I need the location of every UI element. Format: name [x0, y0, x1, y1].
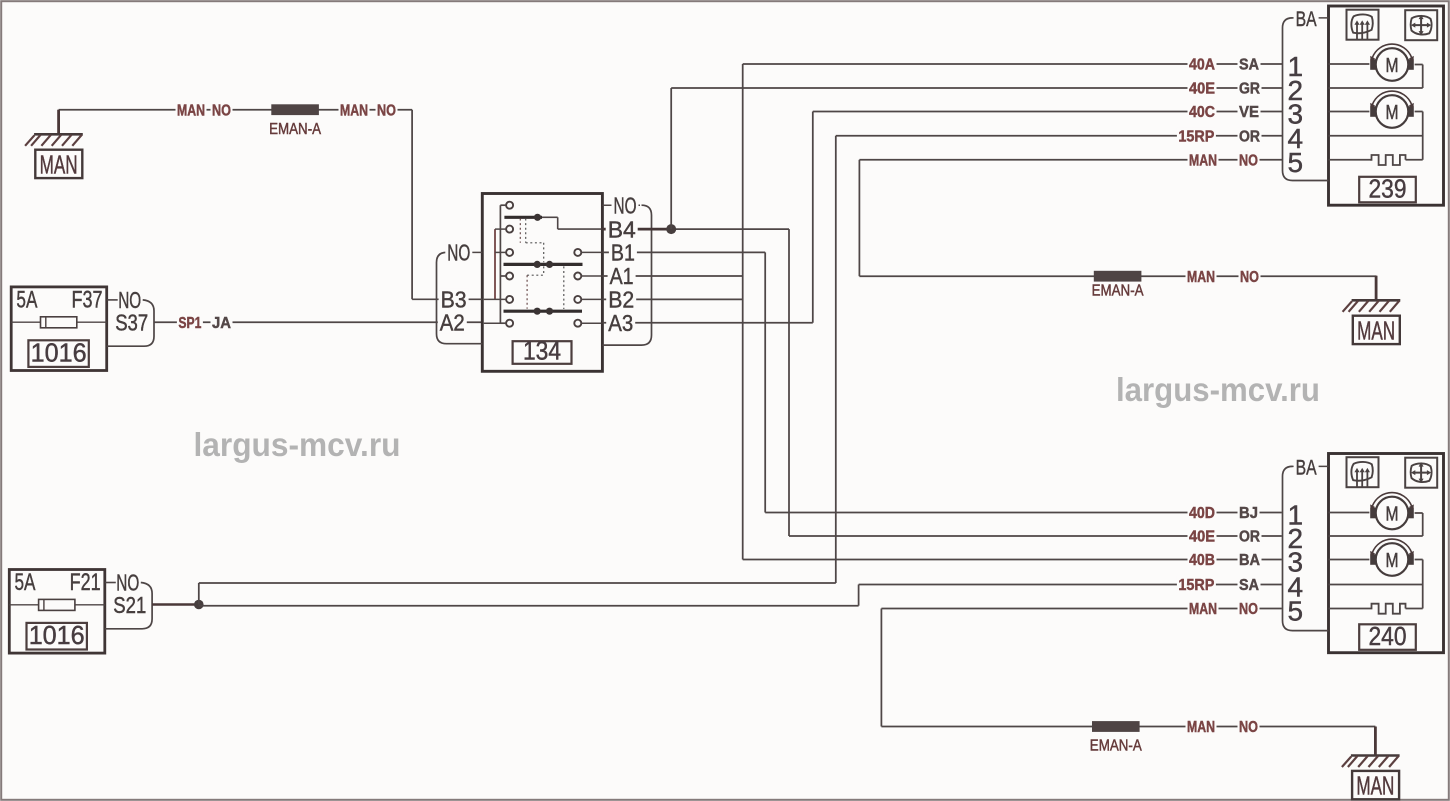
net label MAN (top-left) [176, 101, 207, 119]
relay contact bar 1 (to B4) [504, 214, 601, 229]
fuse F21 (F21 block) [9, 569, 105, 653]
pin number 2 (unit 239) [1288, 75, 1304, 106]
wire 239 pin1 / A1 / B2 / 240 pin3 vertical [743, 64, 1283, 560]
net label MAN (E2) [1186, 268, 1217, 286]
unit 240 id box [1359, 621, 1416, 651]
relay contact bar 3 [504, 308, 583, 315]
net labels 40A-SA [1188, 56, 1261, 74]
svg-text:BA: BA [1296, 457, 1317, 480]
svg-text:40E: 40E [1189, 529, 1215, 546]
heated-glass icon (unit 240) [1347, 457, 1379, 487]
pin number 3 (unit 239) [1288, 99, 1304, 130]
svg-text:239: 239 [1369, 173, 1407, 203]
net labels 15RP-OR [1177, 127, 1262, 145]
svg-text:MAN: MAN [1357, 315, 1395, 345]
svg-text:largus-mcv.ru: largus-mcv.ru [1116, 371, 1320, 408]
wires unit 240 pin1 to motor1 [1329, 512, 1370, 514]
wire 240 pin5 MAN to bottom EMAN-A and ground [881, 609, 1375, 732]
splice EMAN-A (E3 bottom) [1090, 721, 1143, 755]
svg-text:M: M [1386, 55, 1399, 77]
splice EMAN-A (E1 top-left) [269, 104, 322, 138]
net labels 40E-OR (240) [1188, 528, 1262, 546]
heated-glass icon (unit 239) [1347, 10, 1379, 40]
pin BA and bracket (unit 240) [1283, 455, 1329, 630]
svg-text:OR: OR [1239, 529, 1260, 546]
svg-text:A3: A3 [608, 310, 633, 336]
svg-text:NO: NO [447, 240, 470, 266]
svg-text:MAN: MAN [1189, 601, 1217, 618]
net labels 40C-VE [1188, 103, 1261, 121]
wire branch to 240 pin4 (15RP) [199, 585, 1282, 606]
pin number 5 (unit 240) [1288, 596, 1304, 627]
svg-text:JA: JA [212, 315, 231, 332]
net label NO (E2) [1239, 268, 1261, 286]
relay linkage dashes bar2-bar3 [527, 266, 564, 309]
svg-text:SP1: SP1 [178, 315, 201, 332]
svg-text:NO: NO [1239, 601, 1258, 618]
net label MAN (E3) [1186, 718, 1217, 736]
net label SP1 [177, 314, 203, 332]
relay pin A1 wire [602, 263, 742, 289]
svg-text:BA: BA [1296, 8, 1317, 31]
svg-text:MAN: MAN [177, 102, 205, 119]
relay 134 id box [513, 336, 572, 366]
fuse F37 (F37 block) [11, 286, 107, 370]
unit 239 box [1329, 6, 1444, 205]
net label NO (top-left) [211, 101, 233, 119]
svg-text:MAN: MAN [1187, 269, 1215, 286]
wires unit 239 pin1 to motor1 [1329, 63, 1370, 65]
ground MAN G2 [1343, 276, 1401, 346]
svg-text:40A: 40A [1189, 57, 1215, 74]
svg-text:A1: A1 [610, 263, 634, 289]
relay contact bar 2 [504, 261, 583, 268]
svg-text:5A: 5A [16, 286, 37, 313]
svg-text:NO: NO [377, 102, 396, 119]
net labels 40B-BA [1188, 551, 1262, 569]
svg-text:B1: B1 [611, 240, 635, 266]
net labels 40D-BJ [1188, 504, 1260, 522]
relay interior: A2 pin wire [484, 322, 506, 324]
svg-text:SA: SA [1239, 577, 1259, 594]
svg-text:40B: 40B [1189, 552, 1215, 569]
svg-text:S21: S21 [113, 592, 146, 618]
pin number 4 (unit 240) [1288, 572, 1304, 603]
connector label 1016 (F21 block) [27, 620, 87, 650]
pin number 2 (unit 240) [1288, 523, 1304, 554]
svg-text:SA: SA [1239, 57, 1259, 74]
heater/pulse resistor symbol (unit 240) [1370, 604, 1406, 614]
svg-text:NO: NO [212, 102, 231, 119]
net labels 15RP-SA (240) [1177, 576, 1261, 594]
svg-text:1016: 1016 [29, 620, 85, 650]
svg-text:MAN: MAN [1189, 152, 1217, 169]
svg-text:M: M [1386, 550, 1399, 572]
svg-text:15RP: 15RP [1178, 577, 1214, 594]
relay pin B2 wire [602, 287, 742, 313]
svg-text:A2: A2 [440, 309, 465, 335]
svg-text:1016: 1016 [31, 337, 87, 367]
svg-text:M: M [1386, 102, 1399, 124]
svg-text:NO: NO [614, 192, 637, 218]
splice EMAN-A (E2 middle-right) [1092, 271, 1145, 300]
relay interior: left bus (coil common) [500, 205, 506, 323]
svg-text:NO: NO [1239, 152, 1258, 169]
svg-text:134: 134 [523, 336, 561, 366]
relay pin A2 [438, 309, 467, 335]
svg-text:MAN: MAN [340, 102, 368, 119]
svg-text:B2: B2 [608, 287, 634, 313]
watermark left [194, 426, 401, 463]
net label MAN (after E1) [339, 101, 370, 119]
wire S21 output (thick) [152, 603, 199, 606]
svg-text:largus-mcv.ru: largus-mcv.ru [194, 426, 401, 463]
svg-text:BA: BA [1239, 552, 1260, 569]
wire: ground to EMAN-A to corner (top-left) [59, 110, 413, 300]
pin number 4 (unit 239) [1288, 123, 1304, 154]
svg-text:NO: NO [1239, 719, 1258, 736]
relay linkage dashes bar1-bar2 [520, 219, 543, 263]
unit 239 id box [1359, 173, 1416, 203]
watermark right [1116, 371, 1320, 408]
relay interior: fixed contacts left column [506, 202, 513, 327]
svg-text:EMAN-A: EMAN-A [1092, 283, 1145, 300]
net labels 40E-GR [1188, 80, 1262, 98]
net labels MAN-NO (240 pin5) [1188, 600, 1260, 618]
wires unit 239 motor1 to pin2 [1329, 65, 1423, 89]
net label NO (after E1) [376, 101, 398, 119]
svg-text:5: 5 [1288, 147, 1304, 178]
svg-text:M: M [1386, 503, 1399, 525]
svg-text:BJ: BJ [1239, 505, 1258, 522]
relay right bracket [602, 205, 651, 345]
relay pin B4 wire to junction and down to 240 pin2 [602, 216, 1281, 536]
motor M (unit 240 M1) [1370, 493, 1414, 530]
relay pin B1 wire to 240 pin1 [602, 240, 1281, 513]
net label JA [211, 314, 233, 332]
pin number 1 (unit 239) [1288, 51, 1304, 82]
pin number 3 (unit 240) [1288, 547, 1304, 578]
pin number 5 (unit 239) [1288, 147, 1304, 178]
svg-text:5A: 5A [15, 569, 36, 596]
relay pin NO (right) [602, 192, 640, 218]
wire branch to 239 pin4 (15RP) [199, 136, 1283, 605]
svg-text:S37: S37 [115, 309, 148, 335]
svg-text:40E: 40E [1189, 81, 1215, 98]
svg-text:MAN: MAN [1356, 771, 1394, 801]
svg-text:NO: NO [1240, 269, 1259, 286]
svg-text:B4: B4 [608, 216, 636, 242]
junction node B4 [666, 224, 676, 234]
svg-text:OR: OR [1239, 128, 1260, 145]
heater/pulse resistor symbol (unit 239) [1370, 155, 1406, 165]
net label NO (E3) [1238, 718, 1260, 736]
svg-text:MAN: MAN [40, 149, 78, 179]
motor M (unit 239 M1) [1370, 44, 1414, 81]
relay interior: B3 pin wire [484, 298, 506, 300]
wires unit 239 pin3 to motor2 [1329, 111, 1370, 113]
wires unit 240 motor2/pin4/wave vertical [1329, 560, 1423, 609]
relay pin NO (left) [445, 240, 482, 266]
svg-text:F37: F37 [72, 286, 103, 313]
net labels MAN-NO (239 pin5) [1188, 151, 1260, 169]
wires unit 239 motor2/pin4/wave vertical [1329, 112, 1423, 160]
air-flow icon (unit 240) [1405, 458, 1437, 488]
wires unit 240 motor1 to pin2 [1329, 513, 1423, 536]
pin BA and bracket (unit 239) [1283, 7, 1329, 181]
wire SP1-JA from S37 to relay A2 [154, 321, 482, 323]
wire B4 up to 239 pin2 [671, 88, 1282, 229]
relay interior: red bus [495, 229, 506, 299]
relay 134 box [482, 194, 602, 372]
motor M (unit 240 M2) [1370, 539, 1414, 576]
svg-text:GR: GR [1239, 81, 1260, 98]
relay interior: fixed contacts right column [574, 249, 601, 327]
svg-text:240: 240 [1369, 621, 1407, 651]
relay pin A3 wire up to 239 pin3 [602, 112, 1282, 337]
svg-text:EMAN-A: EMAN-A [269, 121, 322, 138]
svg-text:40D: 40D [1189, 505, 1215, 522]
relay pin B3 [412, 287, 482, 313]
svg-text:F21: F21 [70, 569, 101, 596]
svg-text:EMAN-A: EMAN-A [1090, 738, 1143, 755]
svg-text:MAN: MAN [1187, 719, 1215, 736]
ground MAN G1 [25, 110, 83, 180]
wire 239 pin5 MAN down to EMAN row [859, 160, 1376, 276]
svg-text:5: 5 [1288, 596, 1304, 627]
air-flow icon (unit 239) [1405, 10, 1437, 40]
svg-text:VE: VE [1239, 104, 1259, 121]
connector label 1016 (F37 block) [28, 337, 88, 367]
pin number 1 (unit 240) [1288, 500, 1304, 531]
svg-text:40C: 40C [1189, 104, 1215, 121]
pin NO / S21 labels and bracket (F21 block) [105, 570, 152, 629]
unit 240 box [1329, 454, 1444, 653]
wires unit 240 pin3 to motor2 [1329, 559, 1370, 561]
motor M (unit 239 M2) [1370, 91, 1414, 128]
junction node S21 [194, 600, 204, 610]
svg-text:15RP: 15RP [1178, 128, 1214, 145]
ground MAN G3 [1342, 727, 1400, 801]
pin NO / S37 labels and bracket (F37 block) [107, 287, 154, 346]
relay left bracket [437, 252, 483, 343]
